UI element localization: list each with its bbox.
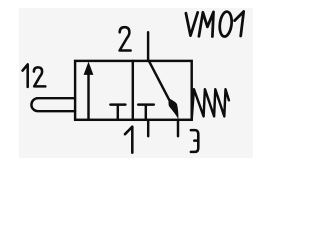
port 2 connection line (147, 32, 149, 61)
right-box diagonal arrowhead (169, 99, 179, 120)
left-box flow arrow stem (87, 72, 89, 120)
valve VM01 body (75, 61, 192, 120)
left-box flow arrowhead (84, 62, 94, 75)
pilot push actuator (port 12) (31, 98, 75, 111)
left-box blocked port T stem (117, 105, 119, 120)
right-box blocked port T stem (145, 105, 147, 120)
valve position divider (132, 61, 134, 120)
designation VM01 digit 0 (218, 11, 233, 37)
label 12 digit 1 (23, 64, 28, 87)
label 12 digit 2 (34, 67, 45, 86)
designation VM01 letter V (186, 12, 198, 35)
right-box blocked port T bar (138, 103, 154, 105)
port 3 connection stub (177, 120, 179, 137)
canvas background (19, 8, 253, 158)
return spring (192, 89, 229, 119)
designation VM01 letter M (199, 12, 214, 37)
right-box diagonal flow line 2 to 3 (149, 61, 176, 113)
label port 2 (120, 27, 131, 50)
left-box blocked port T bar (110, 103, 125, 105)
label port 3 (191, 130, 198, 152)
designation VM01 digit 1 (235, 12, 244, 37)
label port 1 (125, 127, 132, 153)
port 1 connection stub (147, 120, 149, 137)
